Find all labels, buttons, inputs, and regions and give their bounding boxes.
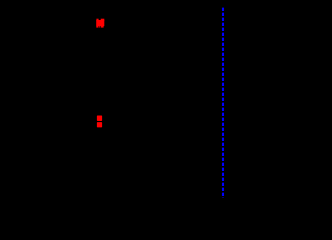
wire: blue dashed vertical line	[222, 8, 224, 198]
node B red double-square marker	[97, 116, 102, 128]
node A red M marker	[96, 19, 104, 28]
